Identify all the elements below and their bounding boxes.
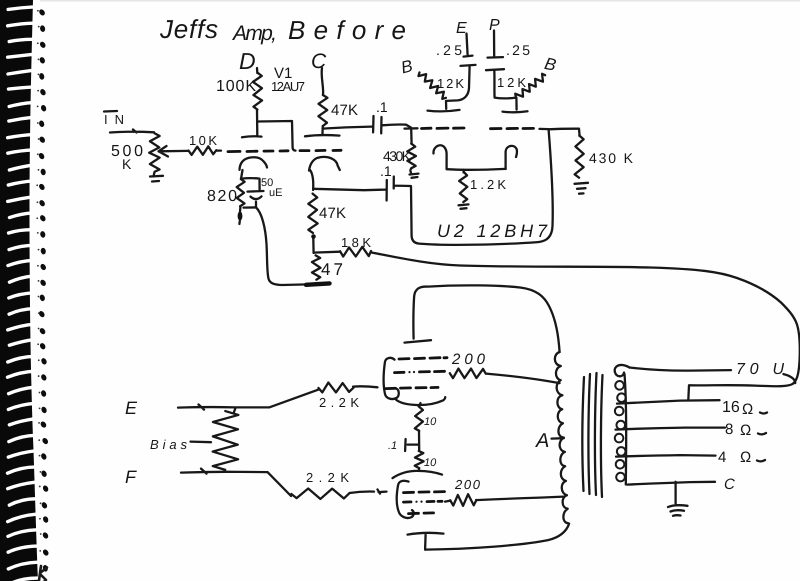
svg-text:10: 10: [424, 457, 437, 469]
node F (bottom): [125, 467, 137, 487]
resistor 47: [312, 239, 343, 280]
svg-text:C: C: [311, 50, 327, 73]
svg-text:2.2K: 2.2K: [319, 395, 359, 410]
wire plate top arc: [413, 285, 559, 352]
title Jeffs Amp Before: [159, 14, 406, 45]
resistor 820: [207, 170, 245, 224]
capacitor .1 coupling top: [323, 99, 412, 133]
svg-text:Ω: Ω: [740, 422, 751, 439]
svg-text:430K: 430K: [383, 148, 412, 164]
wire input: [110, 130, 154, 133]
svg-text:100K: 100K: [216, 78, 256, 95]
svg-text:430 K: 430 K: [589, 150, 634, 166]
svg-text:IN: IN: [104, 112, 124, 127]
svg-text:.1: .1: [388, 440, 397, 452]
svg-text:uE: uE: [269, 187, 282, 199]
svg-text:D: D: [239, 48, 256, 74]
triode V1b plate: [305, 126, 340, 136]
triode V1a cathode arc: [240, 157, 268, 170]
output tube lower plate T: [408, 533, 444, 550]
svg-text:.1: .1: [380, 163, 392, 179]
output tube upper plate T: [405, 340, 432, 342]
node P: [489, 17, 500, 56]
output tube upper grid dashes: [386, 358, 448, 389]
svg-text:Amp,: Amp,: [231, 22, 277, 45]
output tube lower cathode arc: [393, 468, 443, 478]
wire F row: [181, 469, 291, 496]
tap 16 ohm: [617, 399, 767, 418]
resistor 200 (lower): [445, 477, 564, 506]
node B (left): [399, 56, 415, 77]
svg-text:1.2K: 1.2K: [470, 177, 506, 192]
wire E row: [178, 390, 319, 410]
resistor bias: [213, 408, 239, 470]
bottom-left page mark: [39, 566, 47, 581]
svg-text:8: 8: [725, 421, 733, 438]
resistor 47K (V1b cathode): [308, 194, 346, 239]
svg-text:12K: 12K: [497, 75, 526, 90]
svg-text:200: 200: [454, 477, 481, 492]
tap C and ground: [627, 476, 735, 516]
svg-text:2.2K: 2.2K: [306, 470, 349, 485]
capacitor .25 (right): [486, 42, 530, 98]
resistor 430K (right) and ground: [549, 129, 634, 194]
svg-text:.1: .1: [376, 99, 388, 115]
tube V1 label: [271, 65, 305, 94]
resistor 200 (upper): [450, 351, 560, 383]
transformer core: [582, 373, 602, 497]
wire feedback long: [372, 253, 800, 384]
triode U2b cathode curl: [506, 146, 517, 169]
label U2 12BH7: [437, 221, 548, 241]
resistor 2.2K (upper): [318, 383, 377, 410]
svg-text:E: E: [125, 398, 138, 418]
node E (top): [456, 20, 468, 55]
capacitor .25 (left): [436, 42, 476, 101]
node A: [535, 430, 564, 452]
resistor 10K: [189, 133, 218, 155]
resistor 10 (lower): [415, 431, 437, 469]
svg-text:.25: .25: [506, 42, 530, 58]
capacitor .1 (second): [380, 163, 411, 201]
output tube lower grid dashes: [404, 492, 445, 514]
wire grid dashed V1: [228, 150, 341, 151]
node C: [311, 50, 327, 95]
svg-text:10K: 10K: [189, 133, 217, 148]
resistor 47K (V1b plate load): [318, 95, 358, 126]
output tube upper box: [384, 358, 399, 399]
triode U2a cathode curl: [433, 145, 446, 169]
svg-text:U2 12BH7: U2 12BH7: [437, 221, 548, 241]
resistor 10 (upper): [415, 406, 437, 431]
wire to second cap: [313, 189, 386, 190]
wire 70U: [630, 361, 785, 378]
wire bottom rail: [425, 524, 569, 550]
svg-text:4: 4: [718, 449, 726, 466]
wire cathode ground bus: [244, 207, 330, 285]
resistor 100K (V1a plate load): [216, 73, 262, 110]
wire feedback return: [688, 374, 795, 400]
svg-text:Ω: Ω: [742, 401, 753, 418]
tap 4 ohm: [616, 449, 765, 466]
label Bias: [150, 437, 211, 452]
triode V1b cathode arc: [309, 157, 340, 190]
svg-text:12AU7: 12AU7: [271, 79, 305, 94]
svg-text:10: 10: [424, 416, 437, 428]
output tube upper cathode arc: [396, 397, 446, 406]
svg-text:E: E: [456, 20, 467, 37]
tap 8 ohm: [616, 421, 767, 439]
transformer secondary winding: [615, 365, 630, 485]
triode V1a plate: [242, 110, 262, 137]
output tube lower box: [397, 481, 414, 518]
svg-text:200: 200: [451, 351, 486, 368]
svg-text:Jeffs: Jeffs: [159, 14, 218, 44]
svg-text:C: C: [724, 476, 735, 493]
capacitor 50uF: [242, 177, 283, 207]
wire U2 cathodes: [447, 168, 506, 171]
potentiometer 500K: [111, 133, 163, 181]
node IN: [104, 111, 124, 127]
node D: [239, 48, 257, 74]
notebook spiral binding: [0, 0, 50, 581]
node B (right): [543, 54, 558, 75]
wire V1a plate to V1b grid: [258, 121, 296, 151]
resistor 2.2K (lower): [291, 470, 386, 499]
svg-text:16: 16: [722, 399, 740, 416]
svg-text:820: 820: [207, 188, 237, 205]
resistor 430K (left) and ground: [383, 129, 419, 178]
triode U2a plate: [428, 101, 460, 112]
triode U2b plate: [503, 98, 528, 113]
U2 box outline: [411, 130, 553, 245]
svg-text:47K: 47K: [331, 102, 358, 119]
svg-text:Ω: Ω: [740, 449, 751, 466]
resistor 18K: [340, 235, 371, 257]
wire grid dashed U2: [405, 128, 549, 129]
svg-text:47K: 47K: [319, 205, 346, 222]
resistor 12K (left): [418, 72, 464, 98]
resistor 1.2K and ground: [459, 170, 507, 209]
capacitor .1 (bottom): [388, 439, 418, 452]
svg-text:A: A: [535, 430, 549, 452]
resistor 12K (right): [497, 74, 545, 98]
svg-text:K: K: [122, 156, 132, 172]
transformer primary winding: [555, 352, 568, 523]
svg-text:18K: 18K: [341, 235, 371, 250]
svg-text:Bias: Bias: [150, 437, 188, 452]
node E (bottom): [125, 398, 138, 418]
svg-text:12K: 12K: [437, 76, 464, 91]
wiper arrow: [159, 146, 222, 157]
svg-text:F: F: [125, 467, 137, 487]
